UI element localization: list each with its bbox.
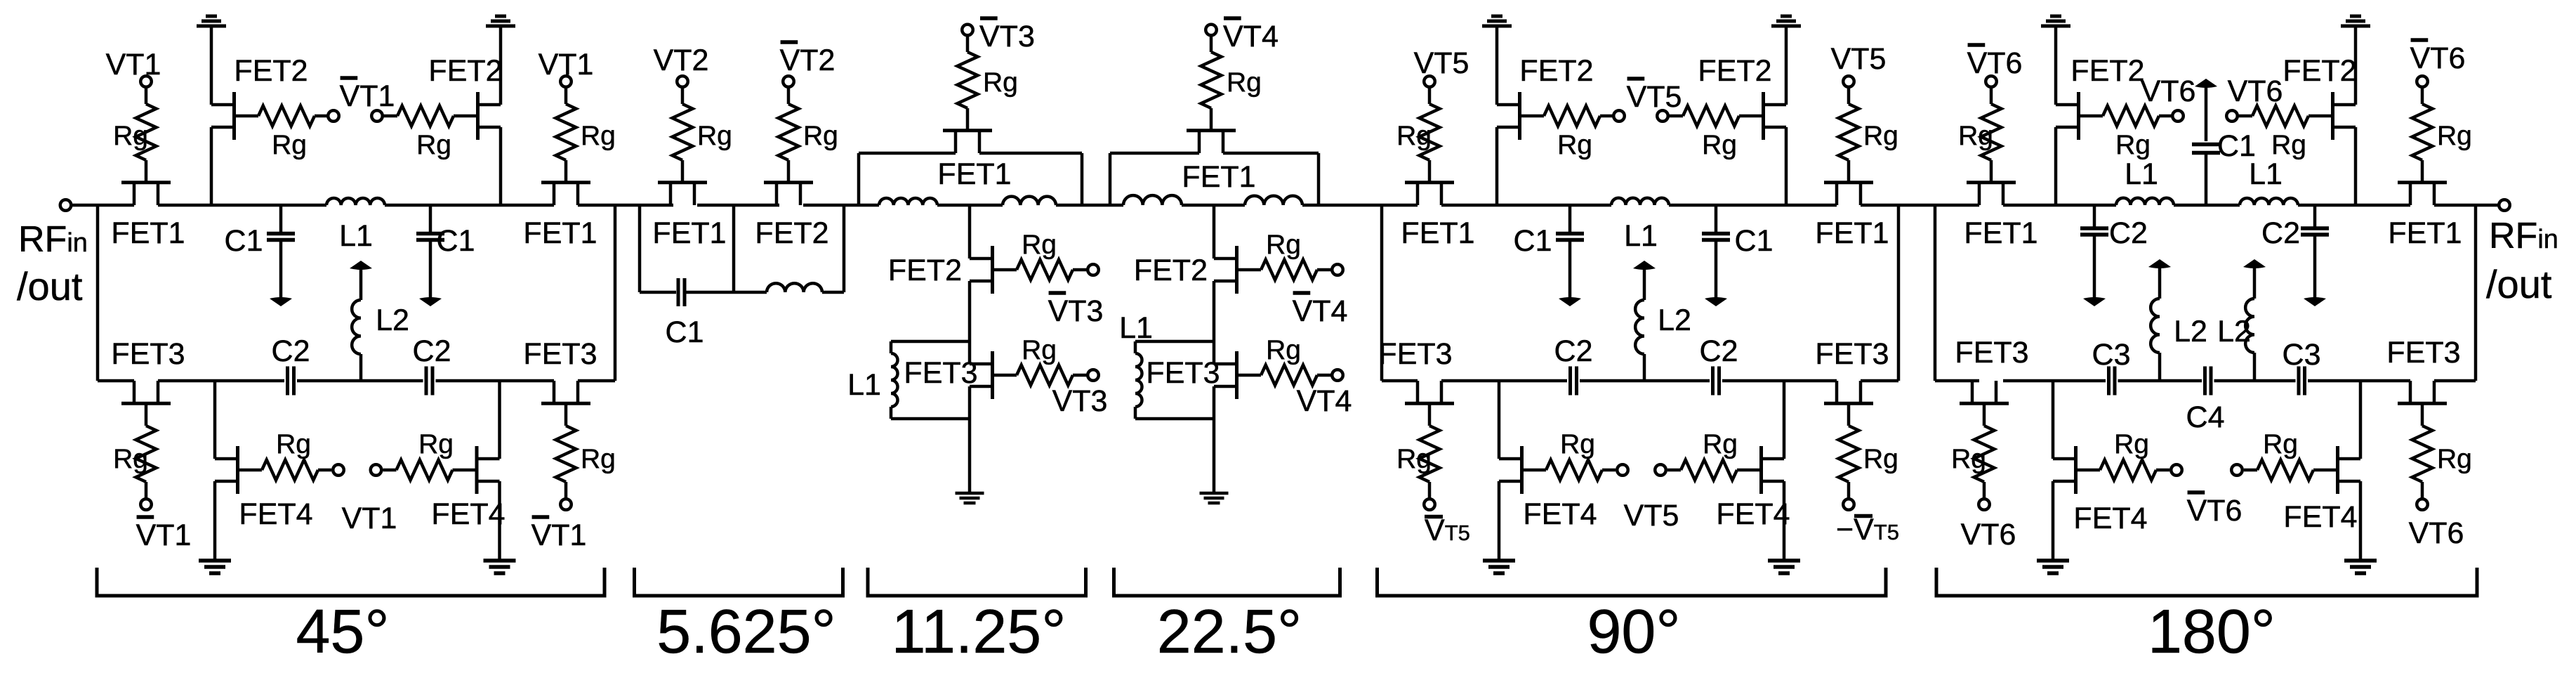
svg-text:VT1: VT1 [539, 48, 594, 81]
svg-text:Rg: Rg [1703, 429, 1738, 459]
svg-text:C2: C2 [2261, 216, 2300, 250]
ground 22.5deg [1200, 493, 1229, 503]
wire Rg to VT4bar [1210, 35, 1213, 52]
terminal VT6 bottom-right 180deg [2417, 499, 2428, 510]
transistor FET2 11.25deg [970, 246, 1017, 294]
wire Rg to terminal [1667, 469, 1681, 472]
wire Rg to terminal [383, 115, 397, 118]
wire top bus [1441, 204, 1611, 207]
resistor Rg FET4-right 45deg [397, 460, 453, 481]
wire Rg to VT2 [681, 87, 685, 105]
wire Rg to terminal [2159, 115, 2172, 118]
capacitor C3 right 180deg [2299, 367, 2305, 396]
resistor Rg FET2-left 45deg [258, 106, 315, 126]
transistor FET4 right 90deg [1737, 446, 1784, 494]
svg-text:FET3: FET3 [1378, 337, 1452, 371]
svg-text:VT3: VT3 [1048, 294, 1104, 328]
capacitor C2 right 45deg [426, 367, 432, 396]
svg-text:5.625°: 5.625° [656, 596, 835, 666]
inductor left 11.25deg [879, 198, 937, 205]
wire FET4 to ground [1783, 481, 1786, 560]
wire ground to FET2 [2054, 27, 2058, 105]
svg-text:11.25°: 11.25° [892, 596, 1066, 666]
wire L1 tap bottom [891, 417, 970, 421]
terminal VT3bar mid [1088, 264, 1099, 275]
svg-text:VT2: VT2 [654, 44, 709, 77]
wire top bus [1861, 204, 1979, 207]
wire Rg to terminal [315, 115, 328, 118]
transistor FET1 right 90deg [1824, 183, 1873, 205]
transistor FET3 right 45deg [541, 381, 590, 403]
transistor FET3 left 180deg [1960, 381, 2009, 403]
terminal VT5bar bottom-left 90deg [1424, 499, 1435, 510]
wire left edge 180deg [1934, 205, 1937, 381]
wire FET2 drain to bus [210, 127, 213, 205]
svg-text:FET2: FET2 [1134, 254, 1208, 287]
wire top bus [578, 204, 673, 207]
transistor FET3 11.25deg [970, 351, 1017, 399]
svg-text:Rg: Rg [983, 67, 1018, 98]
svg-text:VT6: VT6 [2410, 41, 2466, 75]
transistor FET1 left 90deg [1405, 183, 1454, 205]
svg-text:FET1: FET1 [2388, 216, 2462, 250]
svg-text:C1: C1 [1514, 224, 1552, 258]
svg-text:C1: C1 [1735, 224, 1774, 258]
svg-text:Rg: Rg [1557, 130, 1592, 160]
wire Rg to terminal [318, 469, 331, 472]
svg-text:45°: 45° [296, 596, 389, 666]
wire ground to FET2 [2354, 27, 2358, 105]
svg-text:FET2: FET2 [234, 54, 308, 88]
wire top bus [937, 204, 1003, 207]
wire L1 loop upper [890, 341, 893, 353]
ground bottom-right 45deg [484, 561, 516, 573]
transistor FET3 22.5deg [1214, 351, 1261, 399]
transistor FET4 right 45deg [453, 446, 500, 494]
RF input terminal wire [71, 204, 134, 207]
terminal VT3bar top [962, 25, 973, 36]
svg-text:FET1: FET1 [1182, 160, 1255, 194]
transistor FET1 left 180deg [1967, 183, 2016, 205]
svg-text:C1: C1 [437, 224, 475, 258]
terminal VT5bar mid-right 90deg [1657, 110, 1668, 122]
wire elevated top [1110, 152, 1199, 155]
svg-text:C3: C3 [2092, 338, 2131, 372]
ground bottom-left 45deg [199, 561, 231, 573]
svg-text:L2: L2 [1658, 303, 1691, 337]
wire Rg to VT1 [145, 87, 148, 105]
svg-text:VT6: VT6 [1967, 46, 2023, 80]
svg-text:Rg: Rg [2114, 429, 2149, 459]
transistor FET3 right 180deg [2398, 381, 2447, 403]
svg-text:VT4: VT4 [1223, 20, 1279, 53]
resistor Rg FET1-right 45deg [556, 104, 576, 160]
svg-text:VT4: VT4 [1297, 384, 1352, 418]
resistor Rg FET3-left 90deg [1420, 426, 1440, 482]
inductor L1 45deg [326, 198, 385, 205]
label VT6 bar [2187, 492, 2243, 528]
wire right edge 180deg [2474, 205, 2478, 381]
capacitor C2 left 90deg [1571, 367, 1577, 396]
svg-text:Rg: Rg [113, 444, 148, 474]
svg-text:C2: C2 [272, 334, 310, 368]
wire elevated top [1223, 152, 1319, 155]
wire right edge 90deg [1897, 205, 1901, 381]
bracket 22.5deg [1114, 568, 1340, 596]
svg-text:FET2: FET2 [755, 216, 828, 250]
ground top-left 180deg [2041, 16, 2070, 26]
svg-text:FET1: FET1 [1964, 216, 2037, 250]
wire FET3 gate [145, 405, 148, 426]
svg-text:FET1: FET1 [111, 216, 185, 250]
wire bottom bus [98, 379, 134, 383]
transistor FET2 left 45deg [211, 92, 258, 140]
wire loop1 bottom [640, 291, 676, 294]
wire bus to FET4 [2052, 381, 2055, 459]
terminal VT5 mid-left 90deg [1617, 464, 1628, 476]
svg-text:VT3: VT3 [1052, 384, 1108, 418]
transistor FET2 right 45deg [454, 92, 501, 140]
svg-text:VT1: VT1 [340, 79, 395, 113]
resistor Rg FET1-right 180deg [2412, 104, 2433, 160]
ground top-left 90deg [1482, 16, 1512, 26]
svg-text:Rg: Rg [2437, 444, 2472, 474]
terminal VT1 right 45deg [560, 76, 572, 87]
wire L1 tap bottom [1135, 417, 1214, 421]
svg-text:Rg: Rg [272, 130, 307, 160]
terminal VT5 right 90deg [1843, 76, 1854, 87]
svg-text:Rg: Rg [1863, 121, 1898, 151]
wire L2 to bottom bus [2158, 353, 2162, 381]
wire right edge 45deg [614, 205, 617, 381]
ground top-right 90deg [1771, 16, 1801, 26]
inductor right 22.5deg [1245, 196, 1302, 205]
wire L1 loop lower [1134, 407, 1137, 419]
ground 11.25deg [956, 493, 984, 503]
wire top bus [2003, 204, 2116, 207]
terminal VT5 mid-right 90deg [1655, 464, 1666, 476]
inductor L1 22.5deg [1135, 353, 1142, 407]
svg-text:FET4: FET4 [239, 497, 312, 531]
wire FET3 gate [2421, 405, 2424, 426]
svg-text:Rg: Rg [1266, 230, 1301, 260]
resistor Rg FET3-right 180deg [2412, 426, 2433, 482]
resistor Rg FET4-left 45deg [262, 460, 318, 481]
wire Rg to VT1bar [564, 482, 568, 499]
capacitor C1 right 90deg [1702, 205, 1730, 306]
inductor left 22.5deg [1123, 195, 1182, 205]
transistor FET4 left 180deg [2053, 446, 2100, 494]
svg-text:Rg: Rg [113, 121, 148, 151]
wire Rg to VT6bar [1990, 87, 1993, 105]
inductor L2 coil left 180deg [2151, 299, 2160, 353]
svg-text:FET2: FET2 [1698, 54, 1771, 88]
svg-text:L1: L1 [1624, 219, 1658, 253]
capacitor C1 left 90deg [1556, 205, 1584, 306]
svg-text:VT1: VT1 [531, 518, 587, 552]
wire FET3 gate [1428, 405, 1432, 426]
label VT4 bar [1223, 18, 1279, 53]
terminal VT1bar mid-left 45deg [328, 110, 339, 122]
svg-text:VT5: VT5 [1624, 499, 1679, 532]
wire elevated top [979, 152, 1082, 155]
wire Rg to VT2bar [787, 87, 791, 105]
ground bottom-left 90deg [1483, 561, 1515, 573]
wire loop1 bottom [686, 291, 734, 294]
transistor FET2 right 90deg [1739, 92, 1786, 140]
wire Rg to terminal [1602, 469, 1616, 472]
svg-text:L2: L2 [376, 303, 409, 337]
svg-text:VT6: VT6 [2187, 494, 2243, 528]
svg-text:Rg: Rg [1022, 230, 1057, 260]
svg-text:Rg: Rg [1396, 444, 1432, 474]
svg-text:RFin: RFin [2489, 216, 2558, 256]
resistor Rg FET3-left 45deg [136, 426, 157, 482]
wire top bus [1182, 204, 1245, 207]
wire Rg to VT5bar [1428, 482, 1432, 499]
resistor Rg FET1-left 90deg [1420, 104, 1440, 160]
wire elevated left vertical [857, 153, 861, 205]
wire top bus [803, 204, 879, 207]
svg-text:C3: C3 [2283, 338, 2321, 372]
wire L1 loop lower [890, 407, 893, 419]
transistor FET4 left 90deg [1499, 446, 1546, 494]
transistor FET1 right 180deg [2398, 183, 2447, 205]
inductor L1 90deg [1611, 198, 1669, 205]
bracket 45deg [97, 568, 605, 596]
ground top-right 180deg [2341, 16, 2370, 26]
wire Rg to terminal [1073, 374, 1088, 377]
resistor Rg FET2-right 180deg [2252, 106, 2309, 126]
svg-text:FET4: FET4 [1716, 497, 1790, 531]
svg-text:FET3: FET3 [523, 337, 597, 371]
resistor Rg FET1-right 90deg [1839, 104, 1859, 160]
svg-text:VT6: VT6 [2228, 74, 2283, 108]
label VT3 bar [979, 18, 1035, 53]
svg-text:L2: L2 [2174, 315, 2207, 348]
terminal VT1 mid-right 45deg [371, 464, 382, 476]
resistor Rg FET3-right 45deg [556, 426, 576, 482]
svg-text:FET2: FET2 [888, 254, 962, 287]
label VT1 bar [136, 517, 192, 552]
label VT5 bar top [1627, 79, 1682, 114]
wire Rg to terminal [2238, 115, 2252, 118]
transistor FET2 5.625deg [764, 183, 813, 205]
svg-text:FET3: FET3 [1815, 337, 1889, 371]
svg-text:Rg: Rg [1560, 429, 1595, 459]
transistor FET2 right 180deg [2309, 92, 2356, 140]
capacitor C2 left 180deg [2080, 205, 2108, 306]
svg-text:Rg: Rg [697, 121, 732, 151]
wire bottom bus [436, 379, 555, 383]
svg-text:Rg: Rg [416, 130, 451, 160]
resistor Rg FET2-left 90deg [1544, 106, 1600, 126]
wire L1 tap top [1135, 340, 1214, 344]
inductor L2 90deg with arrow [1633, 261, 1656, 300]
svg-text:Rg: Rg [1863, 444, 1898, 474]
terminal VT4 mid [1332, 370, 1343, 381]
label VT3 bar [1048, 293, 1104, 328]
terminal VT6bar mid-left 180deg [2171, 464, 2182, 476]
wire Rg to terminal [1317, 268, 1332, 272]
wire top bus [2298, 204, 2410, 207]
svg-text:FET4: FET4 [1523, 497, 1597, 531]
wire FET1 gate [2421, 160, 2424, 181]
wire bottom bus [1722, 379, 1837, 383]
label VT6 bar [2410, 40, 2466, 75]
wire FET2 drain to bus [1495, 127, 1499, 205]
inductor L2 left 180deg with arrow [2148, 259, 2171, 299]
svg-text:VT6: VT6 [2409, 516, 2464, 550]
ground top-right 45deg [486, 16, 515, 26]
svg-text:L1: L1 [2249, 157, 2283, 191]
svg-text:Rg: Rg [1022, 335, 1057, 365]
wire ground to FET2 [210, 27, 213, 105]
wire FET1 gate [1990, 160, 1993, 181]
svg-text:FET1: FET1 [937, 157, 1011, 191]
wire Rg to terminal [2244, 469, 2257, 472]
wire top bus [697, 204, 779, 207]
svg-text:FET1: FET1 [523, 216, 597, 250]
capacitor C1 5.625deg [678, 278, 685, 306]
label VT2 bar [780, 42, 835, 77]
terminal VT6 mid-right 180deg [2226, 110, 2238, 122]
wire ground to FET2 [1785, 27, 1788, 105]
transistor FET2 left 90deg [1497, 92, 1544, 140]
transistor FET3 right 90deg [1824, 381, 1873, 403]
wire Rg to VT6bar [2421, 87, 2424, 105]
terminal VT5bar mid-left 90deg [1613, 110, 1625, 122]
terminal VT5bar bottom-right 90deg [1843, 499, 1854, 510]
wire Rg to VT1 [564, 87, 568, 105]
resistor Rg FET3 11.25deg [1017, 365, 1073, 386]
svg-text:C1: C1 [225, 224, 263, 258]
wire loop2 right vertical [843, 205, 846, 292]
resistor Rg FET2 11.25deg [1017, 260, 1073, 280]
wire FET3 to ground [1213, 386, 1216, 493]
capacitor C1 right 45deg [416, 205, 444, 306]
inductor L1 right 180deg [2240, 198, 2298, 205]
svg-text:FET2: FET2 [2070, 54, 2144, 88]
wire L2 to bottom bus [2253, 353, 2257, 381]
resistor Rg FET2-right 45deg [397, 106, 454, 126]
svg-text:FET3: FET3 [1955, 336, 2028, 370]
terminal VT6 mid-left 180deg [2172, 110, 2184, 122]
bracket 11.25deg [868, 568, 1086, 596]
wire FET1 gate [1847, 160, 1851, 181]
wire FET3 to ground [968, 386, 972, 493]
capacitor C2 right 180deg [2301, 205, 2329, 306]
transistor FET4 right 180deg [2313, 446, 2360, 494]
svg-text:FET3: FET3 [904, 356, 977, 390]
wire FET2 to FET3 [968, 281, 972, 364]
terminal VT6bar right 180deg [2417, 76, 2428, 87]
terminal VT1 left 45deg [140, 76, 152, 87]
wire bus to FET4 [498, 381, 501, 459]
inductor L1 left 180deg [2116, 198, 2174, 205]
wire FET1 gate [1428, 160, 1432, 181]
wire left edge 45deg [96, 205, 100, 381]
terminal VT6 bottom-left 180deg [1979, 499, 1990, 510]
svg-text:VT1: VT1 [342, 502, 397, 535]
ground bottom-right 90deg [1768, 561, 1800, 573]
wire bottom bus [2308, 379, 2410, 383]
transistor FET2 left 180deg [2056, 92, 2103, 140]
wire bottom bus [2214, 379, 2296, 383]
wire bus to FET2 [968, 205, 972, 259]
svg-text:FET2: FET2 [1519, 54, 1593, 88]
terminal VT1bar mid-right 45deg [371, 110, 383, 122]
wire elevated right vertical [1081, 153, 1084, 205]
resistor Rg FET4-left 180deg [2100, 460, 2156, 481]
svg-text:Rg: Rg [1227, 67, 1262, 98]
terminal VT1 mid-left 45deg [333, 464, 344, 476]
svg-text:Rg: Rg [803, 121, 838, 151]
terminal VT6bar left 180deg [1986, 76, 1997, 87]
svg-text:90°: 90° [1587, 596, 1680, 666]
wire bottom bus [578, 379, 615, 383]
label VT1 bar [531, 517, 587, 552]
RF input terminal [60, 200, 72, 211]
inductor L2 coil 90deg [1635, 300, 1644, 354]
wire bus to FET4 [1498, 381, 1501, 459]
wire Rg to VT1bar [145, 482, 148, 499]
wire Rg to terminal [1600, 115, 1613, 118]
transistor FET4 left 45deg [215, 446, 262, 494]
wire FET4 to ground [1498, 481, 1501, 560]
RF output terminal [2499, 200, 2510, 211]
svg-text:Rg: Rg [2437, 121, 2472, 151]
resistor Rg FET3-right 90deg [1839, 426, 1859, 482]
wire loop1 left vertical [638, 205, 642, 292]
wire L1 loop upper [1134, 341, 1137, 353]
wire Rg to terminal [1317, 374, 1332, 377]
wire bottom bus [158, 379, 284, 383]
wire bus to FET4 [2359, 381, 2363, 459]
svg-text:Rg: Rg [2115, 130, 2151, 160]
terminal VT5 left 90deg [1424, 76, 1435, 87]
terminal VT2 [677, 76, 688, 87]
svg-text:FET3: FET3 [2386, 336, 2460, 370]
wire FET2 drain to bus [1785, 127, 1788, 205]
svg-text:/out: /out [17, 264, 83, 308]
resistor Rg FET2-right 90deg [1683, 106, 1739, 126]
resistor Rg FET4-right 90deg [1681, 460, 1737, 481]
svg-text:FET1: FET1 [1815, 216, 1889, 250]
label VT1 bar top [340, 78, 395, 113]
transistor FET1 right 45deg [541, 183, 590, 205]
label VT6 bar [1967, 45, 2023, 80]
terminal VT1bar bottom-right 45deg [560, 499, 572, 510]
svg-text:FET4: FET4 [2073, 502, 2147, 535]
svg-text:Rg: Rg [2263, 429, 2298, 459]
inductor L2 45deg with arrow [350, 261, 372, 300]
wire Rg to VT5 [1847, 87, 1851, 105]
wire top bus [1302, 204, 1418, 207]
wire FET1 gate [681, 160, 685, 181]
terminal VT6bar mid-right 180deg [2231, 464, 2243, 476]
svg-text:Rg: Rg [581, 444, 616, 474]
wire Rg to VT5bar [1847, 482, 1851, 499]
svg-text:VT1: VT1 [106, 48, 161, 81]
svg-text:L2: L2 [2217, 315, 2251, 348]
transistor FET1 left 45deg [121, 183, 171, 205]
wire FET2 drain to bus [499, 127, 503, 205]
wire loop1 right vertical [732, 205, 736, 292]
svg-text:L1: L1 [339, 219, 373, 253]
wire top bus [1056, 204, 1123, 207]
svg-text:VT5: VT5 [1414, 46, 1469, 80]
